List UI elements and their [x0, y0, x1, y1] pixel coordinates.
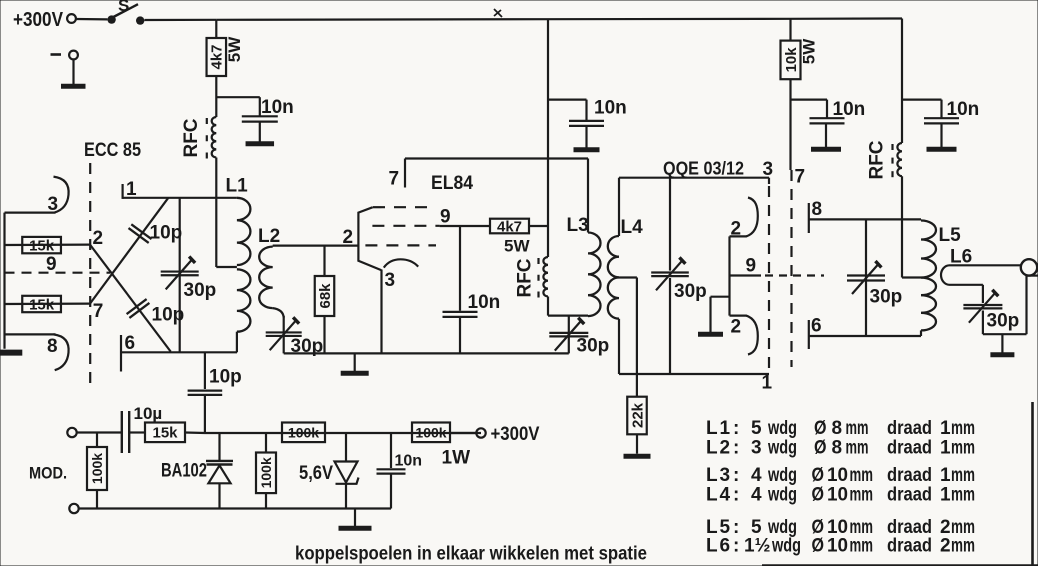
svg-text:7: 7	[93, 301, 104, 322]
antenna output terminal	[1021, 259, 1037, 275]
pin 8 lead (QQE)	[808, 203, 810, 233]
svg-text:1: 1	[940, 418, 951, 439]
svg-text:100k: 100k	[415, 424, 446, 440]
resistor 68k (grid leak)	[323, 246, 325, 276]
node 9 dashed line (ECC85)	[5, 272, 111, 274]
svg-text:30p: 30p	[987, 311, 1020, 332]
svg-text::: :	[733, 485, 739, 506]
capacitor 10n (bias decoupling)	[791, 98, 828, 100]
variable capacitor 30p (PA output tank)	[865, 219, 867, 336]
svg-text:+300V: +300V	[491, 424, 540, 445]
svg-text:MOD.: MOD.	[29, 464, 67, 483]
wire antenna to ground loop	[1025, 276, 1027, 335]
node +300V modulator terminal	[476, 428, 485, 437]
svg-text:mm: mm	[951, 418, 975, 439]
svg-text:15k: 15k	[29, 238, 55, 255]
wire top +300V rail	[145, 19, 217, 21]
tube envelope dashed left (QQE)	[768, 186, 770, 368]
ground (minus) terminal	[51, 53, 62, 56]
svg-text:8: 8	[812, 199, 823, 220]
wire L2 to grid EL84	[273, 245, 359, 247]
capacitor 10u (AF coupling)	[121, 411, 123, 453]
svg-text:koppelspoelen in elkaar wikke: koppelspoelen in elkaar wikkelen met spa…	[295, 544, 647, 565]
wire anode pin 8 to L5 top	[809, 218, 921, 220]
capacitor 10n (B+ decoupling 3)	[902, 98, 942, 100]
svg-text:1: 1	[940, 438, 951, 459]
svg-text:mm: mm	[846, 418, 869, 439]
svg-text:4k7: 4k7	[497, 218, 522, 235]
svg-text:8: 8	[832, 438, 843, 459]
capacitor 10n (osc decoupling)	[216, 96, 259, 98]
svg-text:15k: 15k	[152, 425, 178, 442]
svg-text:L5: L5	[939, 225, 962, 246]
RFC choke (PA anode)	[897, 143, 902, 176]
svg-text:30p: 30p	[577, 336, 610, 357]
svg-text:L2: L2	[258, 226, 280, 247]
svg-text::: :	[733, 438, 739, 459]
variable capacitor 30p (PA tank)	[568, 316, 570, 354]
junction speck on rail	[494, 9, 502, 17]
wire anode pin 6 to L5 bottom	[809, 335, 921, 337]
grid g2 dashed (EL84)	[372, 225, 439, 227]
pin 6 lead (QQE)	[808, 320, 810, 349]
scan edge bottom	[762, 564, 1038, 566]
capacitor 10n (screen decoupling)	[459, 226, 461, 311]
node 9 line (QQE)	[730, 274, 762, 276]
tube ECC85 envelope dashed	[89, 163, 91, 385]
resistor 15k (grid 1)	[5, 244, 91, 247]
svg-text:68k: 68k	[317, 283, 334, 309]
svg-text:ECC 85: ECC 85	[84, 140, 141, 161]
wire terminal to switch	[76, 18, 107, 21]
wire tank right side	[179, 198, 181, 352]
svg-text:1½: 1½	[744, 536, 770, 557]
svg-text:22k: 22k	[629, 402, 646, 428]
svg-text:1W: 1W	[442, 448, 471, 469]
grid g1 dashed (EL84)	[365, 244, 436, 246]
svg-text:10k: 10k	[783, 47, 800, 73]
svg-text:1: 1	[762, 373, 773, 394]
svg-text:3: 3	[763, 159, 774, 180]
svg-text:1: 1	[720, 418, 731, 439]
svg-text:+300V: +300V	[13, 9, 64, 31]
ground (QQE cathode)	[711, 296, 730, 298]
svg-text:RFC: RFC	[181, 118, 202, 157]
svg-text:8: 8	[47, 336, 58, 357]
svg-text:7: 7	[795, 167, 806, 188]
svg-text:wdg: wdg	[767, 465, 797, 486]
node MOD input upper terminal	[67, 428, 76, 437]
svg-text::: :	[733, 536, 739, 557]
svg-text::: :	[733, 418, 739, 439]
svg-text:RFC: RFC	[515, 258, 536, 297]
wire anode top (pin1 to L1)	[123, 197, 237, 199]
resistor 100k 1W (B+ dropper)	[412, 423, 450, 443]
svg-text:draad: draad	[887, 438, 932, 459]
svg-text:Ø: Ø	[812, 536, 825, 557]
svg-text:10n: 10n	[261, 97, 294, 118]
svg-text:L3: L3	[567, 215, 589, 236]
resistor 10k 5W (bias feed)	[789, 19, 791, 41]
svg-text:2: 2	[343, 227, 354, 248]
wire QQE grid top	[619, 177, 769, 179]
svg-text:6: 6	[720, 536, 731, 557]
wire B+ branch 2	[547, 19, 549, 257]
resistor 100k (input load)	[96, 433, 98, 448]
capacitor 10p (coupling to modulator)	[204, 352, 206, 389]
svg-text:5W: 5W	[504, 237, 530, 256]
svg-text:3: 3	[720, 465, 731, 486]
svg-text:wdg: wdg	[771, 536, 801, 557]
variable capacitor 30p (osc tank)	[161, 270, 199, 272]
svg-text:mm: mm	[951, 536, 975, 557]
svg-text:9: 9	[746, 256, 757, 277]
svg-text:10n: 10n	[594, 98, 627, 119]
svg-text:15k: 15k	[29, 296, 55, 313]
ground (22k)	[636, 434, 638, 453]
svg-text:5W: 5W	[225, 36, 244, 62]
wire 10k to pin 7	[789, 79, 791, 170]
svg-text:L1: L1	[226, 176, 249, 197]
cathode lead (EL84)	[380, 270, 382, 354]
svg-text:wdg: wdg	[767, 418, 797, 439]
ground (cathode bus)	[0, 350, 22, 356]
svg-text:L: L	[706, 485, 718, 506]
scan edge right	[1031, 402, 1034, 566]
svg-text:mm: mm	[850, 536, 874, 557]
resistor 100k (bias divider)	[265, 433, 267, 453]
node MOD input lower terminal	[69, 504, 78, 513]
svg-text:BA102: BA102	[161, 461, 207, 482]
node +300V supply terminal	[67, 14, 76, 23]
svg-text:QQE 03/12: QQE 03/12	[663, 159, 744, 179]
svg-text:wdg: wdg	[767, 438, 797, 459]
svg-text:5,6V: 5,6V	[299, 463, 333, 484]
svg-text:EL84: EL84	[431, 173, 473, 194]
svg-text:draad: draad	[887, 465, 932, 486]
grid g3 dashed (EL84)	[373, 206, 436, 208]
svg-text:4k7: 4k7	[209, 44, 226, 69]
svg-text:10p: 10p	[209, 367, 242, 388]
capacitor 10n (B+ decoupling 2)	[548, 98, 587, 100]
svg-text:9: 9	[440, 207, 451, 228]
svg-text:Ø: Ø	[812, 465, 825, 486]
svg-text:L: L	[706, 438, 718, 459]
svg-text:6: 6	[811, 316, 822, 337]
svg-text:30p: 30p	[870, 287, 903, 308]
diode BA102 varicap	[218, 433, 220, 460]
svg-text:5: 5	[751, 418, 762, 439]
wire RFC to L5 centre tap	[901, 176, 903, 277]
svg-text:30p: 30p	[184, 280, 217, 301]
wire QQE grids vertical	[728, 236, 730, 315]
svg-text:2: 2	[940, 536, 951, 557]
svg-text:10: 10	[827, 485, 848, 506]
switch S	[107, 15, 115, 23]
svg-text:4: 4	[751, 465, 762, 486]
svg-text:draad: draad	[887, 536, 932, 557]
svg-text:Ø: Ø	[812, 485, 825, 506]
svg-text:3: 3	[48, 194, 59, 215]
svg-text:3: 3	[751, 438, 762, 459]
wire RFC to L1 centre tap	[215, 158, 217, 268]
grid electrode arc lower (QQE)	[746, 316, 758, 355]
wire QQE grid bottom	[619, 373, 769, 375]
variable capacitor 30p (antenna series)	[982, 285, 984, 303]
svg-text:1: 1	[940, 485, 951, 506]
ground (antenna)	[1001, 334, 1003, 355]
svg-text:mm: mm	[846, 438, 869, 459]
wire EL84 stage ground rail	[284, 352, 569, 354]
wire 4k7 to RFC	[215, 76, 217, 117]
wire modulator bus	[205, 432, 481, 434]
electrode arc pin 3 (ECC85)	[54, 177, 69, 213]
wire anode line EL84 to L3	[405, 157, 588, 159]
svg-text:100k: 100k	[288, 424, 319, 440]
resistor 15k (grid 2)	[5, 303, 91, 306]
resistor 4k7 5W (screen)	[490, 219, 529, 234]
wire left cathode bus	[3, 213, 5, 349]
ground (modulator)	[354, 509, 356, 529]
svg-text::: :	[733, 465, 739, 486]
svg-text:mm: mm	[951, 465, 975, 486]
svg-text:2: 2	[93, 228, 104, 249]
tube envelope dashed right (QQE)	[790, 170, 792, 367]
capacitor 10n (AF bypass)	[390, 433, 392, 468]
svg-text:6: 6	[125, 333, 136, 354]
svg-text:Ø: Ø	[814, 438, 827, 459]
svg-text:draad: draad	[887, 485, 932, 506]
wire B+ branch 3	[901, 19, 903, 144]
svg-text:10: 10	[827, 536, 848, 557]
resistor 22k (grid leak)	[636, 278, 638, 397]
svg-text:10p: 10p	[150, 223, 183, 244]
wire cross-coupling diagonal A	[90, 245, 171, 352]
svg-text:S: S	[118, 0, 129, 15]
svg-text:L: L	[706, 418, 718, 439]
svg-text:L: L	[706, 536, 718, 557]
svg-text:RFC: RFC	[867, 140, 888, 179]
wire MOD to 10u	[77, 431, 121, 433]
svg-text:10n: 10n	[947, 99, 980, 120]
svg-text:10n: 10n	[395, 453, 423, 470]
svg-text:mm: mm	[850, 485, 874, 506]
pin 7 anode lead (EL84)	[404, 159, 406, 188]
svg-text:3: 3	[385, 270, 396, 291]
svg-text:Ø: Ø	[814, 418, 827, 439]
pin 6 lead	[120, 335, 122, 372]
svg-text:wdg: wdg	[767, 485, 797, 506]
svg-text:10n: 10n	[468, 292, 501, 313]
resistor 4k7 5W (osc B+)	[215, 20, 217, 38]
svg-text:100k: 100k	[89, 453, 105, 484]
svg-text:9: 9	[46, 254, 57, 275]
variable capacitor 30p (grid tank)	[669, 178, 671, 271]
wire cross-coupling diagonal B	[90, 198, 168, 304]
svg-text:L: L	[706, 465, 718, 486]
wire modulator ground rail	[79, 507, 391, 509]
RFC choke (EL84 anode)	[543, 257, 548, 296]
svg-text:2: 2	[731, 317, 742, 338]
svg-text:L4: L4	[621, 217, 644, 238]
grid electrode arc upper (QQE)	[746, 198, 758, 237]
resistor 100k (series feed)	[282, 423, 325, 443]
svg-text:2: 2	[720, 438, 731, 459]
capacitor 10p (feedback upper)	[129, 228, 149, 243]
tube EL84 envelope left	[358, 207, 381, 270]
capacitor 10p (feedback lower)	[127, 299, 147, 314]
svg-text:10: 10	[827, 465, 848, 486]
svg-text:10n: 10n	[833, 99, 866, 120]
RFC choke (oscillator)	[212, 117, 217, 158]
svg-text:2: 2	[731, 219, 742, 240]
svg-text:4: 4	[720, 485, 731, 506]
svg-text:10µ: 10µ	[134, 404, 163, 423]
pin 1 lead	[121, 184, 123, 199]
svg-text:4: 4	[751, 485, 762, 506]
wire screen pin 9	[440, 225, 490, 227]
svg-text:100k: 100k	[258, 457, 274, 488]
svg-text:30p: 30p	[674, 281, 707, 302]
svg-text:8: 8	[832, 418, 843, 439]
svg-text:draad: draad	[887, 418, 932, 439]
svg-text:mm: mm	[951, 438, 975, 459]
electrode arc pin 8 (ECC85)	[54, 334, 69, 370]
svg-text:mm: mm	[951, 485, 975, 506]
ground (EL84 stage)	[354, 353, 356, 373]
variable capacitor 30p (L2 tank)	[283, 316, 285, 353]
svg-text:5W: 5W	[800, 38, 819, 64]
svg-text:1: 1	[940, 465, 951, 486]
svg-text:mm: mm	[850, 465, 874, 486]
wire anode bottom (pin6 to L1)	[121, 351, 237, 353]
wire RFC to L3 bottom	[547, 297, 549, 316]
svg-text:7: 7	[389, 169, 400, 190]
resistor 15k (AF series)	[129, 431, 145, 433]
cathode arc (EL84)	[384, 259, 418, 267]
